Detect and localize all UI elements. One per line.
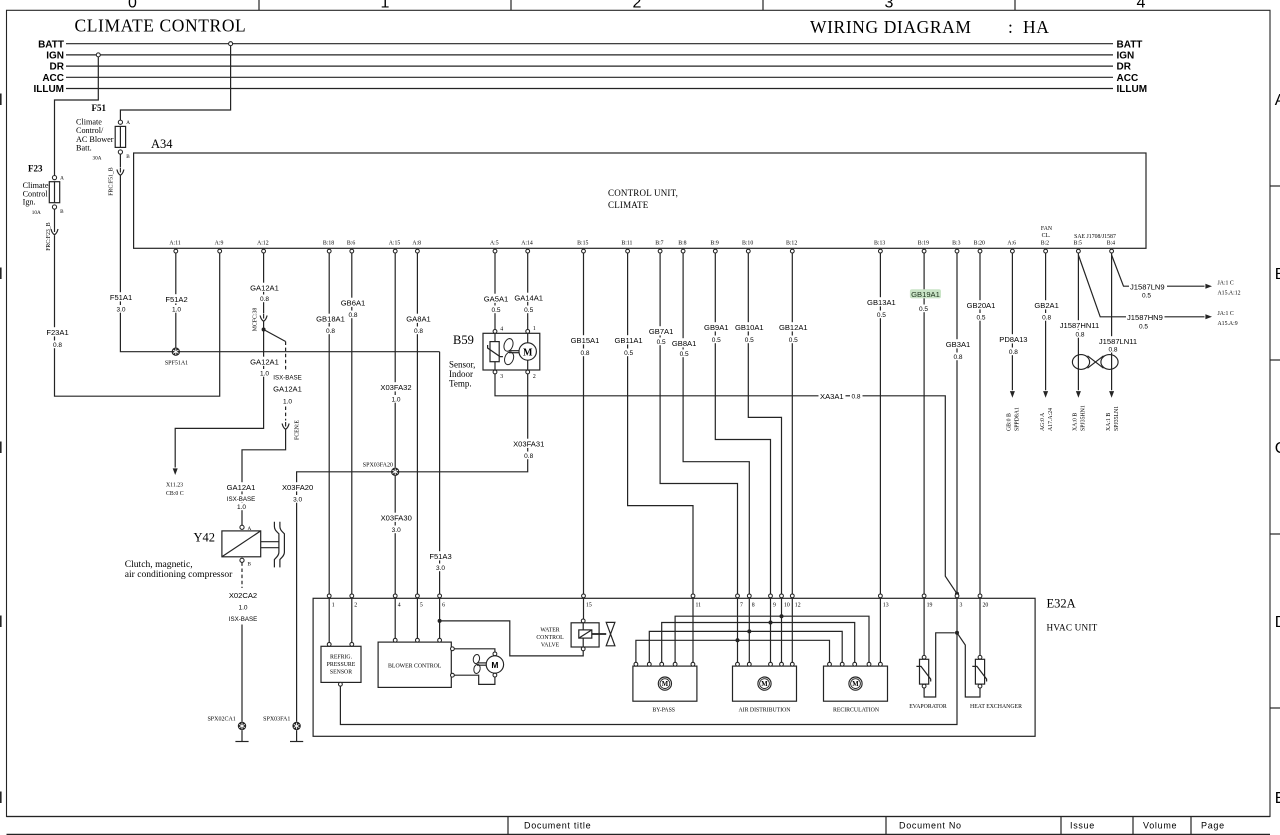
svg-text:0.8: 0.8 [1009, 349, 1018, 356]
wire F51A2 A:11 to splice [164, 253, 189, 347]
heat exchanger temp sensor [970, 655, 1022, 710]
wire HVAC pin 15 to water valve [583, 598, 585, 619]
svg-text:0.8: 0.8 [580, 350, 589, 357]
svg-text:12: 12 [795, 603, 801, 609]
svg-text:0.5: 0.5 [680, 351, 689, 358]
wire GA12A1 ISX-BASE to clutch Y42 [225, 330, 303, 526]
svg-text:B:2: B:2 [1041, 241, 1049, 247]
svg-text:Document title: Document title [524, 821, 591, 831]
E32A pin 15 [582, 594, 592, 609]
svg-text:3.0: 3.0 [116, 307, 125, 314]
svg-text:X02CA2: X02CA2 [229, 591, 257, 600]
A34 pin B:7 [655, 241, 663, 253]
junction GB3A1 heat-exchanger node [955, 631, 959, 635]
svg-text:GB7A1: GB7A1 [649, 327, 673, 336]
A34 pin B:18 [323, 241, 334, 253]
A34 pin A:14 [521, 241, 533, 253]
svg-text:A: A [60, 176, 64, 182]
wire F51A3 to HVAC pin 6 [428, 352, 453, 594]
fuse F51 [76, 103, 130, 162]
svg-text:GB18A1: GB18A1 [316, 315, 345, 324]
svg-text:ACC: ACC [1117, 73, 1139, 84]
HVAC unit E32A [313, 597, 1097, 737]
node on IGN rail [96, 53, 100, 57]
motor interconnect line 2 [662, 621, 855, 663]
svg-text:SPX02CA1: SPX02CA1 [207, 717, 235, 723]
svg-text:3: 3 [500, 374, 503, 380]
wire GB3A1 B:3 to HVAC pin 3 [945, 253, 972, 594]
svg-text:M: M [491, 660, 498, 670]
wire F51A1 fuse output [108, 154, 439, 352]
svg-text:CONTROL UNIT,: CONTROL UNIT, [608, 188, 678, 198]
wire X03FA30 splice to HVAC pin 4 [379, 476, 413, 594]
svg-text:8: 8 [752, 603, 755, 609]
svg-text:1.0: 1.0 [391, 397, 400, 404]
motor interconnect line 4 [636, 638, 830, 662]
svg-text:SPX03FA20: SPX03FA20 [363, 462, 393, 468]
A34 pin B:9 [710, 241, 718, 253]
svg-text:3.0: 3.0 [293, 497, 302, 504]
wire water valve to pin 6 junction [440, 621, 584, 656]
wire F23A1 fuse output to A34 pin A:9 [45, 209, 220, 396]
svg-text:FCEN:E: FCEN:E [295, 420, 301, 440]
E32A pin 19 [922, 594, 932, 609]
svg-text:GB11A1: GB11A1 [615, 336, 643, 345]
svg-text:AC Blower: AC Blower [76, 135, 114, 144]
svg-text:2: 2 [533, 374, 536, 380]
svg-text:A15.A:9: A15.A:9 [1218, 321, 1238, 327]
svg-text:VALVE: VALVE [541, 643, 560, 649]
E32A pin 10 [780, 594, 790, 609]
blower motor M [454, 649, 503, 685]
wire GB3A1 pin 3 to junction [956, 598, 958, 633]
svg-text:ILLUM: ILLUM [33, 84, 64, 95]
svg-text:0.5: 0.5 [976, 315, 985, 322]
svg-text:GA5A1: GA5A1 [484, 295, 508, 304]
svg-text:JA:1 C: JA:1 C [1218, 281, 1234, 287]
svg-text:DR: DR [1117, 62, 1132, 73]
power rail DR [50, 62, 1132, 73]
svg-text:B:15: B:15 [577, 241, 588, 247]
svg-text:0.8: 0.8 [348, 312, 357, 319]
wire GA14A1 A:14 to B59 pin 1 [513, 253, 544, 329]
svg-text:air conditioning compressor: air conditioning compressor [125, 569, 233, 580]
svg-text:1.0: 1.0 [283, 399, 292, 406]
svg-text:11: 11 [696, 603, 702, 609]
A34 pin B:4 [1107, 241, 1115, 253]
svg-text:20: 20 [983, 603, 989, 609]
svg-text:SPPD8A1: SPPD8A1 [1015, 407, 1021, 431]
svg-text:B:10: B:10 [742, 241, 753, 247]
wire GA12A1 to X11.23 [166, 330, 280, 497]
svg-text:0.8: 0.8 [326, 328, 335, 335]
svg-text:JA:1 C: JA:1 C [1218, 311, 1234, 317]
svg-text:J1587LN11: J1587LN11 [1099, 337, 1137, 346]
A34 pin B:10 [742, 241, 753, 253]
svg-text:Ign.: Ign. [23, 198, 36, 207]
svg-text:F51A3: F51A3 [429, 552, 451, 561]
svg-text:GB9A1: GB9A1 [704, 323, 728, 332]
E32A pin 20 [978, 594, 988, 609]
evaporator temp sensor [909, 655, 947, 710]
svg-text:B:4: B:4 [1107, 241, 1115, 247]
twisted pair symbol [1072, 355, 1118, 370]
svg-text:19: 19 [927, 603, 933, 609]
svg-text:B:18: B:18 [323, 241, 334, 247]
svg-text:B:5: B:5 [1074, 241, 1082, 247]
A34 pin A:12 [257, 241, 269, 253]
svg-text:A34: A34 [151, 137, 173, 151]
wire X03FA31 B59 pin 2 to splice line [281, 374, 546, 722]
svg-text:0.8: 0.8 [953, 354, 962, 361]
E32A pin 2 [350, 594, 357, 609]
wire pin 20 to heat exchanger sensor [979, 598, 981, 656]
svg-text:AG:0 A: AG:0 A [1040, 412, 1046, 431]
svg-text:F23: F23 [28, 164, 43, 174]
svg-text:GB2A1: GB2A1 [1034, 301, 1058, 310]
svg-text:Document No: Document No [899, 821, 962, 831]
E32A pin 5 [416, 594, 423, 609]
svg-text:A15.A:12: A15.A:12 [1218, 291, 1241, 297]
wire HVAC pin 6 to blower control [439, 598, 441, 638]
wire GB11A1 B:11 to HVAC pin 11 [613, 253, 693, 594]
fuse F23 [23, 164, 65, 217]
right grid zone letters A-E [1275, 92, 1280, 807]
ground termination SPX03FA1 [290, 730, 303, 741]
wire HVAC pin 2 to refrig sensor [351, 598, 353, 643]
svg-text:WATER: WATER [540, 628, 559, 634]
svg-text:13: 13 [883, 603, 889, 609]
A34 pin B:8 [678, 241, 686, 253]
water control valve [536, 619, 615, 651]
svg-text:GB15A1: GB15A1 [571, 336, 600, 345]
svg-text:A:8: A:8 [412, 241, 421, 247]
svg-text:3: 3 [885, 0, 894, 11]
wire pin 9 to air distribution motor [770, 598, 772, 662]
svg-text:RECIRCULATION: RECIRCULATION [833, 708, 880, 714]
svg-text:Issue: Issue [1070, 821, 1095, 831]
E32A pin 3 [955, 594, 962, 609]
wire pin 19 to evaporator sensor [923, 598, 925, 656]
E32A pin 8 [747, 594, 754, 609]
svg-text:PRESSURE: PRESSURE [327, 662, 356, 668]
power rail ILLUM [33, 84, 1147, 95]
wire J1587LN11 from B:4 [1097, 253, 1138, 431]
svg-text:Temp.: Temp. [449, 379, 472, 389]
svg-text:1.0: 1.0 [172, 307, 181, 314]
splice SPF51A1 [165, 348, 188, 367]
wire refrig sensor to GB3A1 net [340, 633, 957, 725]
svg-text:3.0: 3.0 [436, 565, 445, 572]
air distribution damper motor [733, 662, 797, 713]
svg-text:X03FA31: X03FA31 [513, 440, 544, 449]
top grid zone numbers 0-4 [128, 0, 1146, 11]
splice SPX03FA1 [263, 717, 301, 731]
svg-text:1.0: 1.0 [237, 504, 246, 511]
svg-text:0.5: 0.5 [657, 339, 666, 346]
svg-text:Climate: Climate [76, 117, 102, 126]
A34 pin B:13 [874, 241, 885, 253]
svg-text:5: 5 [420, 603, 423, 609]
wire pin 8 to air distribution motor [748, 598, 750, 662]
svg-text:SPX03FA1: SPX03FA1 [263, 717, 290, 723]
svg-text:A:6: A:6 [1007, 241, 1016, 247]
svg-text:XA:1 B: XA:1 B [1106, 413, 1112, 431]
blower control module [378, 638, 454, 687]
svg-text:F51: F51 [92, 103, 107, 113]
blower fan symbol [472, 654, 486, 674]
svg-text:Indoor: Indoor [449, 369, 473, 379]
svg-text:GB8A1: GB8A1 [672, 339, 696, 348]
svg-text:A:15: A:15 [389, 241, 401, 247]
svg-text:F23A1: F23A1 [46, 328, 68, 337]
junction on GA12A1 [262, 328, 266, 332]
wire GB18A1 B:18 to HVAC pin 1 [315, 253, 346, 594]
svg-text:0.8: 0.8 [1075, 332, 1084, 339]
A34 pin B:20 [974, 241, 985, 253]
svg-text:2: 2 [633, 0, 642, 11]
A34 pin B:5 [1074, 241, 1082, 253]
A34 pin A:5 [490, 241, 499, 253]
refrigerant pressure sensor [321, 643, 361, 687]
E32A pin 7 [736, 594, 743, 609]
svg-text:J1587LN9: J1587LN9 [1130, 282, 1165, 291]
wire pin 13 to recirculation motor [879, 598, 881, 662]
top grid ticks [259, 0, 1015, 10]
svg-text:C: C [1275, 440, 1280, 457]
svg-text:0.5: 0.5 [712, 337, 721, 344]
A34 pin B:2 [1041, 241, 1049, 253]
svg-text:M: M [761, 681, 768, 688]
svg-text:J1587HN9: J1587HN9 [1127, 313, 1163, 322]
svg-text:M: M [852, 681, 859, 688]
wire HVAC pin 4 to blower control [394, 598, 396, 638]
svg-text:SAE J1708/J1587: SAE J1708/J1587 [1074, 234, 1116, 240]
wire GB12A1 B:12 to HVAC pin 12 [778, 253, 809, 594]
power rail ACC [42, 73, 1138, 84]
motor interconnect line 1 [675, 614, 869, 662]
svg-text:1: 1 [332, 603, 335, 609]
svg-text:0: 0 [128, 0, 137, 11]
svg-text:0.5: 0.5 [624, 350, 633, 357]
A34 pin header FAN CL. [1041, 226, 1053, 239]
sensor B59 indoor temp [449, 326, 540, 389]
svg-text:FRC:F51_B: FRC:F51_B [108, 167, 114, 195]
svg-text:GA14A1: GA14A1 [514, 294, 543, 303]
svg-text:7: 7 [740, 603, 743, 609]
svg-text:B:7: B:7 [655, 241, 663, 247]
wire heat exchanger to GB3A1 junction [957, 633, 980, 697]
svg-text:0.8: 0.8 [260, 296, 269, 303]
svg-text:Volume: Volume [1143, 821, 1177, 831]
recirculation damper motor [824, 662, 888, 713]
svg-text:ISX-BASE: ISX-BASE [227, 496, 256, 503]
E32A pin 13 [879, 594, 889, 609]
svg-text:0.5: 0.5 [524, 307, 533, 314]
svg-text:B:19: B:19 [918, 241, 929, 247]
svg-text:CLIMATE CONTROL: CLIMATE CONTROL [75, 16, 247, 36]
clutch, magnetic Y42 [125, 525, 261, 580]
splice SPX03FA20 [363, 462, 400, 476]
svg-text:GA12A1: GA12A1 [227, 483, 256, 492]
svg-text:SPJ35HN1: SPJ35HN1 [1081, 405, 1087, 431]
svg-text:B: B [1275, 266, 1280, 283]
svg-text:HEAT EXCHANGER: HEAT EXCHANGER [970, 704, 1022, 710]
svg-text:0.8: 0.8 [414, 328, 423, 335]
svg-text:A: A [126, 120, 130, 126]
svg-text:B: B [126, 154, 130, 160]
svg-text:B59: B59 [453, 333, 474, 347]
left grid zone letter slivers [0, 94, 2, 804]
svg-text:IGN: IGN [46, 51, 64, 62]
A34 pin A:15 [389, 241, 401, 253]
svg-text:0.5: 0.5 [1142, 293, 1151, 300]
svg-text:D: D [1275, 614, 1280, 631]
svg-text:2: 2 [354, 603, 357, 609]
svg-text:0.8: 0.8 [524, 453, 533, 460]
svg-text:M: M [523, 347, 533, 358]
motor interconnect line 3 [649, 629, 842, 662]
svg-text:GA12A1: GA12A1 [250, 358, 279, 367]
wire GA12A1 from A:12 [249, 253, 280, 331]
svg-text:0.5: 0.5 [1139, 324, 1148, 331]
svg-text:1: 1 [533, 326, 536, 332]
E32A pin 12 [790, 594, 800, 609]
by-pass damper motor [633, 662, 697, 713]
svg-text:CLIMATE: CLIMATE [608, 200, 649, 210]
svg-text:10A: 10A [32, 210, 41, 216]
wire J1587HN9 from B:5 to A15:A:9 [1078, 255, 1237, 331]
svg-text:GB13A1: GB13A1 [867, 298, 896, 307]
control unit A34 [134, 137, 1146, 248]
A34 pin B:19 [918, 241, 929, 253]
svg-text:6: 6 [442, 603, 445, 609]
svg-text:4: 4 [500, 327, 503, 333]
svg-text:Sensor,: Sensor, [449, 360, 475, 370]
svg-text:Y42: Y42 [194, 531, 216, 545]
svg-text:SPF51A1: SPF51A1 [165, 361, 188, 367]
wire BATT rail to fuse F51 [120, 46, 230, 120]
wire J1587HN11 from B:5 [1058, 253, 1101, 431]
svg-text:0.8: 0.8 [1108, 346, 1117, 353]
wire GB20A1 B:20 to HVAC pin 20 [965, 253, 996, 594]
svg-text:GA8A1: GA8A1 [406, 315, 430, 324]
svg-text:CB:0 C: CB:0 C [166, 491, 184, 497]
svg-text:HVAC UNIT: HVAC UNIT [1047, 623, 1098, 633]
E32A pin 1 [327, 594, 334, 609]
E32A pin 4 [393, 594, 400, 609]
wire pin 12 to air distribution motor [791, 598, 793, 662]
wire XA3A1 B59 pin 3 to HVAC pin 3 [495, 374, 957, 594]
svg-text:B:3: B:3 [952, 241, 960, 247]
svg-text:B:20: B:20 [974, 241, 985, 247]
svg-text:3: 3 [960, 603, 963, 609]
svg-text:0.5: 0.5 [745, 337, 754, 344]
svg-text:EVAPORATOR: EVAPORATOR [909, 704, 947, 710]
svg-text:AIR DISTRIBUTION: AIR DISTRIBUTION [738, 708, 791, 714]
svg-text:A:12: A:12 [257, 241, 269, 247]
wire evaporator to GB3A1 junction [924, 633, 955, 697]
wire PD8A13 from A:6 to SPPD8A1 [998, 253, 1029, 431]
svg-text:4: 4 [1137, 0, 1146, 11]
wire pin 7 to air distribution motor [737, 598, 739, 662]
svg-text:10: 10 [784, 603, 790, 609]
A34 pin B:6 [347, 241, 355, 253]
svg-text:30A: 30A [93, 156, 102, 162]
svg-text:1: 1 [381, 0, 390, 11]
svg-text:0.5: 0.5 [919, 306, 928, 313]
svg-text:B:9: B:9 [710, 241, 718, 247]
svg-text:B:13: B:13 [874, 241, 885, 247]
svg-text:XA3A1: XA3A1 [820, 392, 844, 401]
svg-text:BATT: BATT [38, 39, 64, 50]
svg-text:BATT: BATT [1117, 39, 1143, 50]
wire GB9A1 B:9 to HVAC pin 9 [703, 253, 771, 594]
svg-text:GA12A1: GA12A1 [250, 284, 279, 293]
splice SPX02CA1 [207, 717, 246, 731]
A34 pin A:11 [169, 241, 180, 253]
svg-text:XA:0 B: XA:0 B [1073, 413, 1079, 431]
A34 pin A:8 [412, 241, 421, 253]
svg-text:IGN: IGN [1117, 51, 1135, 62]
svg-text:15: 15 [586, 603, 592, 609]
svg-text:A:11: A:11 [169, 241, 180, 247]
wire pin 11 to by-pass motor [692, 598, 694, 662]
wire IGN rail to fuse F23 [55, 57, 99, 175]
svg-text:MCFC:38: MCFC:38 [253, 308, 259, 332]
svg-text:SPJ35LN1: SPJ35LN1 [1114, 406, 1120, 431]
wire GB19A1 B:19 to HVAC pin 19 (highlighted) [910, 253, 941, 594]
svg-text::: : [1008, 17, 1013, 37]
svg-text:BY-PASS: BY-PASS [652, 708, 675, 714]
junction XA3A1/GB3A1 [955, 592, 959, 596]
svg-text:PD8A13: PD8A13 [999, 335, 1027, 344]
clutch plates symbol [261, 522, 285, 568]
B59 fan symbol [502, 337, 519, 365]
svg-text:A: A [1275, 92, 1280, 109]
svg-text:CONTROL: CONTROL [536, 635, 564, 641]
right grid ticks [1270, 186, 1280, 708]
wire GB15A1 B:15 to HVAC pin 15 [569, 253, 600, 594]
svg-text:X03FA30: X03FA30 [381, 514, 412, 523]
svg-text:ISX-BASE: ISX-BASE [273, 375, 302, 382]
svg-text:GB12A1: GB12A1 [779, 323, 808, 332]
E32A pin 6 [438, 594, 445, 609]
E32A pin 9 [769, 594, 776, 609]
ground termination SPX02CA1 [235, 730, 248, 741]
A34 pin B:11 [621, 241, 632, 253]
svg-text:A:14: A:14 [521, 241, 533, 247]
svg-text:GA12A1: GA12A1 [273, 385, 302, 394]
power rail IGN [46, 51, 1134, 62]
svg-text:SENSOR: SENSOR [330, 670, 352, 676]
svg-text:REFRIG.: REFRIG. [330, 655, 353, 661]
svg-text:DR: DR [50, 62, 65, 73]
svg-text:B: B [248, 562, 252, 568]
svg-text:Batt.: Batt. [76, 144, 92, 153]
svg-text:CL.: CL. [1042, 233, 1051, 239]
svg-text:3.0: 3.0 [392, 527, 401, 534]
A34 pin B:12 [786, 241, 797, 253]
junction on pin 6 wire [438, 619, 442, 623]
wire GB10A1 B:10 to HVAC pin 10 [734, 253, 782, 594]
wire GB6A1 B:6 to HVAC pin 2 [340, 253, 367, 594]
B59 thermistor element [488, 333, 503, 370]
svg-text:WIRING DIAGRAM: WIRING DIAGRAM [810, 17, 972, 37]
svg-text:B:8: B:8 [678, 241, 686, 247]
svg-text:0.5: 0.5 [789, 337, 798, 344]
svg-text:GB3A1: GB3A1 [946, 340, 970, 349]
